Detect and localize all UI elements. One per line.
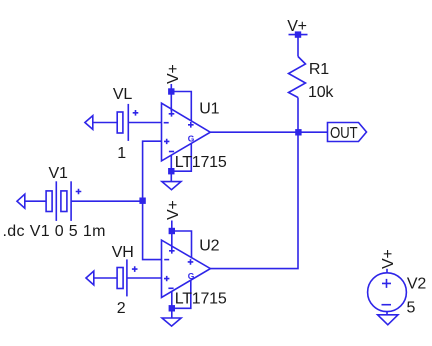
svg-text:VL: VL — [113, 86, 132, 103]
op-amp U1 (LT1715 comparator) — [162, 84, 227, 182]
wire — [25, 200, 46, 202]
wire — [94, 277, 117, 279]
svg-text:2: 2 — [117, 300, 126, 317]
wire V1 to U1 IN+ — [143, 141, 162, 201]
svg-text:V2: V2 — [407, 276, 426, 293]
wire — [71, 200, 143, 202]
svg-text:G: G — [188, 271, 195, 281]
marker plus input U1 — [164, 139, 169, 144]
junction square U2 V+ — [169, 228, 175, 234]
wire — [297, 98, 299, 133]
port arrow VL — [85, 116, 93, 130]
flag bar — [289, 34, 308, 36]
svg-text:U2: U2 — [199, 238, 219, 255]
voltage source V1 — [3, 165, 143, 240]
wire U1 output to node — [210, 131, 298, 133]
battery plate short VL — [117, 112, 123, 133]
wire to OUT port — [298, 131, 328, 133]
marker plus vcco U1 — [188, 122, 194, 128]
port arrow V1 — [17, 194, 25, 208]
wire V1 to U2 IN- — [143, 201, 162, 259]
svg-text:V1: V1 — [49, 165, 68, 182]
marker minus power U1 — [169, 151, 174, 153]
svg-text:R1: R1 — [309, 61, 329, 78]
svg-text:V+: V+ — [165, 200, 182, 220]
voltage source VH — [86, 244, 162, 317]
wire — [127, 277, 162, 279]
node OUT junction — [295, 129, 301, 135]
pin V+ top U1 — [170, 84, 172, 111]
pin GND loop U2 — [172, 281, 191, 309]
battery plate long VH — [126, 259, 128, 296]
svg-text:V+: V+ — [380, 249, 397, 269]
plus mark VH — [132, 266, 138, 272]
ground under U2 — [162, 318, 181, 326]
flag V+ top — [287, 18, 307, 38]
svg-text:LT1715: LT1715 — [175, 291, 227, 308]
plus mark V2 — [382, 279, 391, 288]
pin V- bottom U2 — [171, 292, 173, 319]
voltage source VL — [85, 86, 162, 162]
svg-text:.dc V1 0 5 1m: .dc V1 0 5 1m — [3, 223, 106, 240]
node A junction of V1 — [139, 198, 145, 204]
plus mark VL — [133, 110, 139, 116]
svg-text:V+: V+ — [165, 64, 182, 84]
plus mark V1 — [76, 189, 82, 195]
minus mark V2 — [382, 304, 392, 306]
pin V- bottom U1 — [170, 155, 172, 182]
svg-text:U1: U1 — [199, 101, 219, 118]
pin VCCO loop U2 — [172, 231, 192, 259]
marker plus vcco U2 — [188, 259, 194, 265]
port arrow VH — [86, 271, 94, 285]
marker plus power U1 — [169, 111, 175, 117]
battery plate long VL — [127, 104, 129, 141]
svg-text:LT1715: LT1715 — [175, 154, 227, 171]
junction square V+ — [295, 31, 301, 37]
marker minus input U2 — [164, 259, 169, 261]
wire — [93, 122, 117, 124]
ground under V2 — [378, 315, 398, 325]
wire — [128, 122, 161, 124]
triangle body U1 — [162, 103, 211, 161]
resistor body R1 — [289, 57, 306, 98]
svg-text:1: 1 — [117, 145, 126, 162]
junction square U1 V+ — [168, 88, 174, 94]
wire — [297, 35, 299, 57]
voltage source V2 — [368, 269, 427, 317]
battery plate short VH — [117, 268, 123, 289]
svg-text:VH: VH — [112, 244, 134, 261]
battery plate short V1 a — [46, 191, 52, 212]
junction square U1 V- — [168, 168, 174, 174]
resistor R1 — [289, 35, 335, 133]
battery plate short V1 b — [61, 191, 67, 212]
op-amp U2 (LT1715 comparator) — [162, 221, 227, 319]
marker minus power U2 — [168, 287, 173, 289]
svg-text:OUT: OUT — [330, 125, 358, 142]
wire bottom stub — [386, 312, 388, 315]
junction square U2 V- — [169, 305, 175, 311]
svg-text:5: 5 — [407, 300, 416, 317]
marker minus input U1 — [164, 122, 169, 124]
ground under U1 — [162, 182, 181, 190]
battery plate long V1 a — [55, 181, 57, 221]
pin GND loop U1 — [171, 144, 191, 172]
circle body V2 — [368, 273, 407, 312]
wire node down and to U2 output — [210, 132, 298, 268]
triangle body U2 — [162, 240, 211, 297]
pin VCCO loop U1 — [171, 92, 191, 122]
svg-text:10k: 10k — [308, 84, 334, 101]
wire top stub — [386, 269, 388, 273]
pin V+ top U2 — [171, 221, 173, 249]
marker plus input U2 — [164, 276, 169, 281]
port flag OUT — [328, 123, 367, 142]
svg-text:G: G — [188, 134, 195, 144]
marker plus power U2 — [169, 248, 175, 254]
battery plate long V1 b — [70, 181, 72, 221]
